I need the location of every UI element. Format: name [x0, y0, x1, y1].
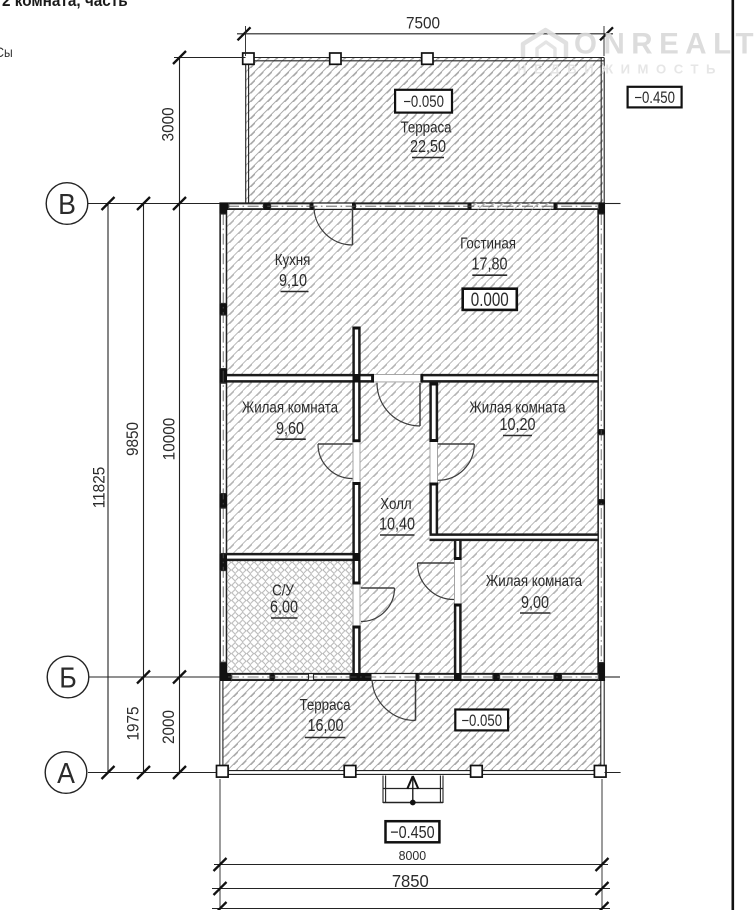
top terrace post 2: [330, 53, 341, 64]
svg-text:В: В: [58, 188, 76, 220]
bottom terrace post 4: [594, 766, 606, 778]
tick partial right: [596, 902, 609, 910]
bottom terrace edge right: [600, 681, 602, 775]
top terrace edge left: [245, 58, 247, 203]
opening V4 room9.00 door gap: [454, 560, 462, 604]
svg-text:Холл: Холл: [380, 496, 411, 513]
level box -0.450 top right: [628, 87, 682, 108]
svg-text:9,60: 9,60: [276, 419, 304, 439]
bottom wall window jamb x554: [555, 673, 562, 681]
wall exterior top (axis V): [220, 203, 606, 211]
svg-text:7500: 7500: [406, 15, 440, 33]
bottom wall solid pier x350-371: [351, 673, 372, 681]
junction block V1-H1: [353, 374, 361, 383]
wall exterior right: [598, 203, 606, 682]
top terrace post 3: [422, 53, 433, 64]
bottom wall window mullion x270: [271, 673, 275, 681]
wall H3 rooms divider: [430, 534, 598, 542]
window left wall W10: [220, 383, 226, 493]
extension lines top: [245, 26, 247, 56]
extension lines bottom: [219, 779, 221, 910]
dimension line 3000: [179, 58, 181, 204]
left wall junction block SU: [220, 554, 228, 570]
svg-text:7850: 7850: [392, 872, 429, 891]
junction block V2-H2 (SU corner): [353, 553, 361, 561]
dimension line bottom partial: [212, 908, 610, 910]
left wall junction block H1: [220, 369, 228, 383]
left wall window jamb y494: [220, 494, 228, 508]
wall V1 kitchen/living stub: [353, 327, 361, 375]
wall V4 room9 west lower: [454, 604, 462, 674]
tick 7500 right: [600, 27, 613, 40]
ticks on axis V line: [102, 197, 115, 210]
right wall corner block bottom: [598, 663, 606, 681]
window top wall W3: [557, 204, 598, 209]
entrance steps: [383, 776, 443, 804]
tick 7850 right: [596, 882, 609, 895]
axis circle V: [46, 183, 88, 225]
hatch bottom terrace (Terrasa 16.00 floor): [223, 681, 601, 771]
svg-text:17,80: 17,80: [471, 254, 507, 274]
bottom wall door jamb right: [416, 673, 419, 681]
door D6 hall->SU: [361, 587, 395, 589]
svg-text:2 комната, часть: 2 комната, часть: [2, 0, 128, 10]
window right wall W14: [598, 435, 604, 500]
wall V2 hall west mid: [353, 482, 361, 553]
bottom wall axis dash-dot: [228, 676, 600, 678]
bottom wall window jamb x493: [494, 673, 500, 681]
wall V2 SU east lower: [353, 626, 361, 674]
window left wall W12: [220, 571, 226, 663]
right wall window jamb y430: [598, 430, 606, 434]
svg-text:0.000: 0.000: [471, 288, 509, 310]
svg-text:Гостиная: Гостиная: [460, 235, 516, 252]
hatch bathroom S/U cross: [228, 561, 354, 673]
window bottom wall W7: [562, 674, 599, 679]
wall exterior left (axis line 1): [220, 203, 228, 682]
door D5 hall->room9.00: [418, 562, 455, 564]
window top wall W2 (living): [356, 204, 469, 209]
left wall corner block top: [220, 203, 228, 214]
hatch top terrace (Terrasa 22.50 floor): [246, 58, 603, 203]
bottom terrace post 1: [217, 766, 229, 778]
left wall window jamb y304: [220, 304, 228, 315]
tick 7500 left: [238, 27, 251, 40]
svg-text:10,40: 10,40: [379, 514, 415, 534]
top terrace post 1: [243, 53, 254, 64]
ticks on axis B line: [137, 671, 150, 684]
svg-text:9,10: 9,10: [279, 271, 307, 291]
axis line A horizontal: [88, 772, 216, 774]
dimension line 8000: [214, 864, 608, 866]
svg-text:Б: Б: [59, 661, 77, 693]
svg-text:Кухня: Кухня: [275, 252, 311, 269]
svg-text:−0.450: −0.450: [390, 823, 434, 843]
bottom terrace post 3: [471, 766, 483, 778]
window top wall W1a: [229, 204, 264, 209]
bottom terrace edge bottom: [216, 770, 606, 772]
bottom terrace edge left: [219, 681, 221, 775]
right wall corner block top: [598, 203, 606, 214]
svg-text:Сы: Сы: [0, 44, 13, 60]
window bottom wall W4b: [275, 674, 309, 679]
top wall hatched pier x470-555: [470, 203, 555, 209]
wall V2 hall west upper: [353, 383, 361, 443]
frame border line right: [731, 0, 734, 910]
bottom terrace post 2: [344, 766, 356, 778]
door D3 hall->room9.60: [318, 443, 353, 445]
door D4 hall->room10.20: [438, 443, 474, 445]
level box -0.050 bottom terrace: [455, 710, 508, 731]
tick 7850 left: [214, 882, 227, 895]
top terrace edge right: [600, 58, 602, 203]
svg-text:10,20: 10,20: [499, 415, 535, 435]
top wall corner block right: [599, 203, 605, 211]
window top wall W1b: [271, 204, 310, 209]
svg-text:−0.050: −0.050: [461, 712, 502, 731]
axis circle A: [45, 752, 87, 794]
right wall window jamb y500: [598, 500, 606, 504]
window bottom wall W5: [419, 674, 493, 679]
tick 8000 left: [214, 858, 227, 871]
level box -0.450 bottom: [386, 821, 440, 842]
window bottom wall W4a: [232, 674, 270, 679]
opening H1 hall door gap: [374, 374, 420, 383]
window right wall W15: [598, 505, 604, 663]
window bottom wall W4c: [314, 674, 351, 679]
ticks on axis A line: [102, 766, 115, 779]
level box 0.000 living room: [463, 289, 517, 310]
wall V2 SU east upper: [353, 561, 361, 585]
svg-text:9,00: 9,00: [521, 593, 549, 613]
wall H1 left segment (kitchen south): [227, 374, 374, 383]
tick 8000 right: [596, 858, 609, 871]
door D1 terrace->kitchen: [352, 207, 354, 246]
svg-text:Жилая комната: Жилая комната: [486, 573, 583, 590]
left wall corner block bottom: [220, 663, 228, 681]
dimension line 11825: [107, 204, 109, 773]
axis circle B: [47, 656, 89, 698]
window left wall W11: [220, 508, 226, 553]
axis line B horizontal: [90, 676, 220, 678]
extension line terrace top-left: [174, 57, 246, 59]
level box -0.050 top terrace: [395, 90, 452, 113]
window right wall W13: [598, 214, 604, 430]
svg-text:НЕДВИЖИМОСТЬ: НЕДВИЖИМОСТЬ: [517, 62, 723, 77]
hatch main interior rooms: [227, 210, 598, 673]
svg-text:Терраса: Терраса: [400, 120, 452, 137]
bottom wall corner block left: [220, 673, 232, 681]
left wall axis dash-dot: [222, 214, 224, 662]
top wall axis dash-dot: [228, 205, 600, 207]
wall exterior bottom (axis B): [220, 673, 606, 681]
svg-text:8000: 8000: [399, 849, 426, 863]
svg-text:6,00: 6,00: [270, 597, 298, 617]
door D2 living->hall: [419, 383, 421, 426]
svg-text:9850: 9850: [125, 422, 143, 456]
svg-text:22,50: 22,50: [410, 137, 446, 157]
svg-text:1975: 1975: [125, 706, 143, 740]
top terrace edge top: [246, 57, 605, 59]
dimension line 10000/2000: [179, 204, 181, 773]
window bottom wall W6: [500, 674, 554, 679]
top wall door jamb right: [352, 203, 355, 211]
top wall door jamb left: [311, 203, 314, 211]
opening V3 room10.20 door gap: [430, 442, 439, 483]
svg-text:3000: 3000: [160, 107, 178, 141]
door D7 hall->terrace exit: [415, 680, 417, 721]
entrance direction arrow: [407, 776, 418, 805]
tick partial left: [214, 902, 227, 910]
wall H2 bathroom north: [227, 553, 353, 561]
opening V2 SU door gap: [353, 585, 361, 626]
top wall window mullion x264: [264, 203, 270, 211]
window left wall W9: [220, 315, 226, 369]
top wall pier edge blocks: [469, 203, 472, 211]
svg-text:А: А: [57, 757, 75, 789]
svg-text:10000: 10000: [161, 418, 179, 461]
tick 3000 top: [173, 51, 186, 64]
svg-text:2000: 2000: [161, 710, 179, 744]
junction block V4-B wall: [454, 673, 462, 681]
dimension line 7500: [237, 33, 613, 35]
junction block V3-H3: [430, 534, 439, 542]
dimension line 9850/1975: [143, 204, 145, 773]
svg-text:16,00: 16,00: [307, 716, 343, 736]
svg-text:Терраса: Терраса: [299, 697, 351, 714]
wall V3 hall east upper: [430, 383, 439, 443]
wall V3 hall east lower: [430, 483, 439, 534]
dimension line 7850: [212, 888, 610, 890]
svg-text:11825: 11825: [91, 467, 109, 509]
watermark ONREALT logo: [517, 28, 755, 77]
opening V2 room9.60 door gap: [353, 442, 361, 482]
wall V4 room9 west upper: [454, 541, 462, 560]
wall H1 right segment (living south): [420, 374, 597, 383]
svg-text:−0.050: −0.050: [403, 93, 444, 112]
axis line V horizontal: [88, 203, 220, 205]
svg-text:−0.450: −0.450: [634, 89, 675, 108]
right wall axis dash-dot: [600, 214, 602, 662]
top wall corner block left: [220, 203, 229, 211]
svg-text:Жилая комната: Жилая комната: [242, 400, 339, 417]
bottom wall corner block right: [599, 673, 605, 681]
window left wall W8: [220, 214, 226, 303]
